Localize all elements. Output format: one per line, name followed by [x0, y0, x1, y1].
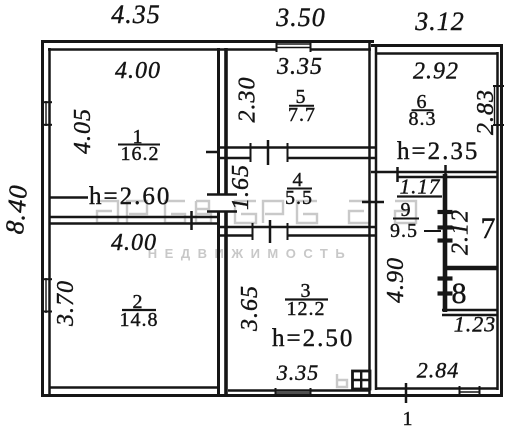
svg-text:12.2: 12.2: [287, 298, 326, 320]
svg-text:7.7: 7.7: [288, 104, 316, 126]
door tick room6-room9: [396, 167, 399, 182]
fraction bar room9: [393, 218, 419, 220]
fraction bar room2: [122, 309, 156, 311]
outer wall bottom: [41, 394, 503, 397]
svg-text:1.65: 1.65: [228, 164, 254, 210]
svg-text:3.35: 3.35: [276, 360, 320, 385]
wall between room1 and room2: [49, 216, 219, 219]
inner bottom wall right column: [377, 387, 498, 390]
wall A between left and middle columns: [217, 48, 220, 195]
wall between room4 and room3: [218, 226, 377, 229]
wall between room6 and room9: [371, 171, 498, 174]
door ticks wall A room1-room4: [207, 193, 237, 196]
svg-text:3.35: 3.35: [276, 54, 323, 80]
svg-text:1: 1: [403, 408, 414, 430]
wall between room7 and room8: [445, 266, 498, 271]
svg-text:9.5: 9.5: [390, 220, 418, 242]
door ticks room5-room4: [250, 143, 252, 162]
svg-text:2.12: 2.12: [448, 209, 474, 255]
watermark big word: [97, 201, 416, 387]
svg-text:2.92: 2.92: [413, 59, 459, 85]
wall between room9 and rooms7-8: [443, 174, 448, 312]
svg-text:4.00: 4.00: [111, 230, 157, 256]
outer wall right: [500, 44, 503, 397]
svg-text:НЕДВИЖИМОСТЬ: НЕДВИЖИМОСТЬ: [148, 246, 352, 261]
junction tick wall 9/7 top: [444, 165, 447, 184]
svg-text:7: 7: [481, 212, 496, 245]
window left room1: [45, 101, 47, 126]
window right room6: [494, 85, 496, 126]
svg-text:8: 8: [452, 277, 467, 310]
door tick room1-room2: [190, 211, 193, 230]
inner bottom wall room2: [49, 386, 218, 389]
svg-text:3.50: 3.50: [275, 3, 326, 32]
inner wall right: [496, 52, 499, 390]
leader line h=2.60: [49, 196, 88, 199]
svg-text:3.70: 3.70: [53, 280, 79, 327]
fraction bar room4: [287, 188, 312, 190]
fraction bar room5: [289, 105, 314, 107]
svg-text:2.83: 2.83: [473, 89, 499, 135]
svg-text:1.17: 1.17: [400, 175, 441, 199]
svg-text:2.84: 2.84: [417, 358, 460, 383]
outer wall top right part: [371, 44, 503, 47]
svg-text:16.2: 16.2: [121, 143, 160, 165]
fraction bar room3: [285, 298, 328, 300]
svg-text:4.05: 4.05: [70, 108, 96, 154]
outer wall top left part: [41, 40, 374, 43]
window bottom right: [459, 391, 480, 393]
junction tick wall A at wall 5/4: [206, 151, 218, 154]
svg-text:5.5: 5.5: [285, 187, 313, 209]
door tick wall B: [362, 201, 384, 204]
inner bottom wall room3: [228, 389, 369, 392]
svg-text:14.8: 14.8: [120, 309, 159, 331]
wall B between middle and right columns: [368, 42, 371, 394]
door ticks room4-room3: [252, 223, 254, 240]
wall below room8: [442, 309, 498, 312]
window left room2: [45, 278, 47, 313]
svg-text:3.12: 3.12: [414, 7, 465, 36]
fraction bar room6: [412, 109, 434, 111]
svg-text:4.00: 4.00: [115, 58, 161, 84]
underline 1.17: [397, 195, 442, 197]
svg-text:1.23: 1.23: [454, 312, 497, 337]
window top room5: [276, 43, 311, 45]
inner top wall room6: [377, 52, 498, 55]
svg-text:3.65: 3.65: [237, 285, 263, 332]
entrance door tick bottom: [405, 383, 408, 403]
svg-text:h=2.35: h=2.35: [397, 138, 479, 165]
svg-text:h=2.50: h=2.50: [272, 325, 354, 352]
inner top wall room1-room5: [48, 48, 276, 51]
svg-text:8.3: 8.3: [409, 108, 437, 130]
stove icon kitchen: [353, 371, 371, 389]
outer wall left: [41, 40, 44, 397]
fraction bar room1: [118, 144, 160, 146]
inner wall left: [48, 48, 51, 394]
window bottom room3: [275, 392, 311, 394]
svg-text:8.40: 8.40: [0, 183, 33, 235]
wall between room5 and room4: [218, 146, 377, 149]
svg-text:4.35: 4.35: [111, 0, 161, 29]
hatch ticks wall 9/7: [438, 210, 453, 214]
leader dash 9.5: [424, 230, 441, 232]
hatch ticks wall 9/8: [438, 276, 453, 280]
svg-text:4.90: 4.90: [383, 257, 409, 303]
svg-text:9: 9: [401, 199, 412, 221]
svg-text:2.30: 2.30: [235, 77, 261, 123]
svg-text:h=2.60: h=2.60: [89, 183, 171, 210]
